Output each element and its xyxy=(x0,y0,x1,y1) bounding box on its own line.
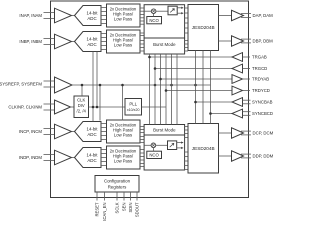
CLKIN input buffer xyxy=(55,100,75,114)
bus decimation D to DDC 2 xyxy=(140,150,144,167)
svg-text:CLK: CLK xyxy=(77,98,85,103)
2x decimation filter channel B xyxy=(107,30,141,53)
svg-text:Low Pass: Low Pass xyxy=(114,133,132,138)
input pins INDP, INDM xyxy=(19,155,55,161)
svg-text:SYNCBAB: SYNCBAB xyxy=(252,100,273,105)
clock line to ADC B/C xyxy=(92,52,95,122)
svg-text:SYNCBCD: SYNCBCD xyxy=(252,111,273,116)
chip boundary xyxy=(51,1,249,198)
pin SYNCBAB xyxy=(194,98,272,107)
bus ADC D to decimation xyxy=(101,150,107,166)
bus decimation B to burst mode 1 xyxy=(140,33,144,51)
svg-text:RESET: RESET xyxy=(95,202,100,216)
14-bit ADC channel D xyxy=(72,148,102,168)
svg-text:x10/x20: x10/x20 xyxy=(127,108,140,112)
svg-text:SCLK: SCLK xyxy=(115,202,120,213)
decimate-by-N block 1 xyxy=(168,6,177,15)
output driver and pins DDP, DDM xyxy=(219,151,274,161)
svg-text:INCP, INCM: INCP, INCM xyxy=(19,129,42,134)
svg-text:DBP, DBM: DBP, DBM xyxy=(253,39,274,44)
NCO 2 xyxy=(147,148,162,159)
mixer 1 (channel A DDC) xyxy=(151,9,156,14)
14-bit ADC channel B xyxy=(72,32,102,52)
svg-text:JESD204B: JESD204B xyxy=(192,25,215,30)
input pins INBP, INBM xyxy=(19,39,54,45)
svg-text:SYSREFP, SYSREFM: SYSREFP, SYSREFM xyxy=(0,82,42,87)
DDC block 2 (channel D) xyxy=(144,135,185,170)
wire mixer 1 to decimator 1 xyxy=(156,10,168,12)
svg-text:SDIN: SDIN xyxy=(128,203,133,213)
svg-text:Burst Mode: Burst Mode xyxy=(153,42,176,47)
14-bit ADC channel A xyxy=(72,6,102,26)
svg-text:TRGCD: TRGCD xyxy=(252,66,267,71)
SYSREF tap to CLK DIV xyxy=(81,84,84,96)
bus decimation A to DDC 1 xyxy=(140,8,144,24)
bus ADC B to decimation xyxy=(101,34,107,50)
2x decimation filter channel D xyxy=(107,146,141,169)
arrows decimator 2 outputs xyxy=(177,141,184,149)
input pins INAP, INAM xyxy=(19,13,54,19)
NCO 1 xyxy=(147,14,162,24)
arrows decimator 1 outputs xyxy=(177,7,183,15)
SYSREF tap to decimation C xyxy=(121,84,124,121)
PLL block xyxy=(125,99,142,116)
svg-text:Low Pass: Low Pass xyxy=(114,43,132,48)
wire DDC 1 input to mixer 1 xyxy=(144,10,151,12)
input buffer amp channel D xyxy=(55,150,72,165)
output driver and pins DBP, DBM xyxy=(219,36,274,46)
svg-text:JESD204B: JESD204B xyxy=(192,146,215,151)
burst mode block 2 (channels C/D) xyxy=(144,125,185,136)
mixer 2 (channel D DDC) xyxy=(151,143,156,148)
svg-text:DAP, DAM: DAP, DAM xyxy=(253,13,274,18)
input pins INCP, INCM xyxy=(19,129,55,135)
svg-text:14-bit: 14-bit xyxy=(87,152,99,157)
bus burst mode 2 and DDC 2 to JESD204B 2 xyxy=(185,127,188,170)
pin TRDYAB xyxy=(159,75,269,84)
SYSREF junction JESD 1 xyxy=(194,84,197,87)
svg-text:TRDYAB: TRDYAB xyxy=(252,77,269,82)
JESD204B interface 1 xyxy=(188,5,219,51)
SYSREF junction mesh xyxy=(154,84,173,87)
bus DDC 1 and burst mode 1 to JESD204B 1 xyxy=(185,8,188,51)
output driver and pins DAP, DAM xyxy=(219,10,274,20)
SPI pin SEN xyxy=(122,192,127,211)
svg-text:DDP, DDM: DDP, DDM xyxy=(253,154,274,159)
SYSREF input buffer xyxy=(55,77,211,93)
svg-text:TRGAB: TRGAB xyxy=(252,55,267,60)
wire PLL output xyxy=(142,106,167,108)
svg-text:CLKINP, CLKINM: CLKINP, CLKINM xyxy=(8,105,42,110)
input buffer amp channel A xyxy=(55,8,72,23)
decimate-by-N block 2 xyxy=(168,141,177,150)
svg-text:INAP, INAM: INAP, INAM xyxy=(19,13,42,18)
svg-text:Registers: Registers xyxy=(108,184,127,189)
bus ADC A to decimation xyxy=(101,8,107,24)
SPI pin SDIN xyxy=(128,192,133,213)
2x decimation filter channel C xyxy=(107,120,141,143)
output driver and pins DCP, DCM xyxy=(219,128,274,138)
JESD sync vertical wires xyxy=(196,51,211,124)
SPI pin SCLK xyxy=(115,192,120,213)
svg-text:Low Pass: Low Pass xyxy=(114,17,132,22)
configuration registers block xyxy=(95,176,139,193)
svg-text:/2, /4: /2, /4 xyxy=(77,108,87,113)
svg-text:NCO: NCO xyxy=(149,153,159,158)
SPI pin SCAN_EN xyxy=(102,192,107,222)
pin SYNCBCD xyxy=(209,109,273,118)
svg-text:Configuration: Configuration xyxy=(104,178,131,183)
input buffer amp channel B xyxy=(55,34,72,49)
JESD204B interface 2 xyxy=(188,124,219,174)
wire DDC 2 input to mixer 2 xyxy=(144,144,151,146)
pin TRGCD xyxy=(154,64,268,73)
svg-text:ADC: ADC xyxy=(87,158,96,163)
input pins SYSREFP, SYSREFM xyxy=(0,81,55,87)
svg-text:ADC: ADC xyxy=(87,132,96,137)
svg-text:ADC: ADC xyxy=(87,42,96,47)
trigger/sync vertical wires xyxy=(150,54,178,125)
svg-text:Burst Mode: Burst Mode xyxy=(153,127,176,132)
svg-text:SDOUT: SDOUT xyxy=(135,202,140,217)
SPI pin SDOUT xyxy=(135,192,140,217)
svg-text:DIV: DIV xyxy=(78,103,85,108)
svg-text:SCAN_EN: SCAN_EN xyxy=(102,203,107,222)
burst mode block 1 (channels A/B) xyxy=(144,38,185,54)
svg-text:Low Pass: Low Pass xyxy=(114,159,132,164)
svg-text:INBP, INBM: INBP, INBM xyxy=(19,39,42,44)
pin TRDYCD xyxy=(165,86,270,95)
svg-text:SEN: SEN xyxy=(122,203,127,212)
svg-text:ADC: ADC xyxy=(87,16,96,21)
svg-text:14-bit: 14-bit xyxy=(87,10,99,15)
wire CLK DIV to PLL xyxy=(89,106,126,108)
clock line to ADC B xyxy=(96,52,99,109)
2x decimation filter channel A xyxy=(107,4,141,27)
svg-text:14-bit: 14-bit xyxy=(87,36,99,41)
svg-text:DCP, DCM: DCP, DCM xyxy=(253,131,274,136)
svg-text:NCO: NCO xyxy=(149,18,159,23)
SYSREF branch junction xyxy=(99,84,102,121)
CLK DIV block xyxy=(74,96,89,118)
bus ADC C to decimation xyxy=(101,124,107,140)
svg-text:INDP, INDM: INDP, INDM xyxy=(19,155,42,160)
svg-text:14-bit: 14-bit xyxy=(87,126,99,131)
input buffer amp channel C xyxy=(55,124,72,139)
14-bit ADC channel C xyxy=(72,122,102,142)
pin TRGAB xyxy=(148,53,267,62)
input pins CLKINP, CLKINM xyxy=(8,104,54,110)
DDC block 1 (channel A) xyxy=(144,5,185,38)
bus decimation C to burst mode 2 xyxy=(140,127,144,143)
SPI pin RESET xyxy=(95,192,100,216)
svg-text:PLL: PLL xyxy=(129,101,137,106)
wire mixer 2 to decimator 2 xyxy=(156,144,168,146)
svg-text:TRDYCD: TRDYCD xyxy=(252,88,270,93)
